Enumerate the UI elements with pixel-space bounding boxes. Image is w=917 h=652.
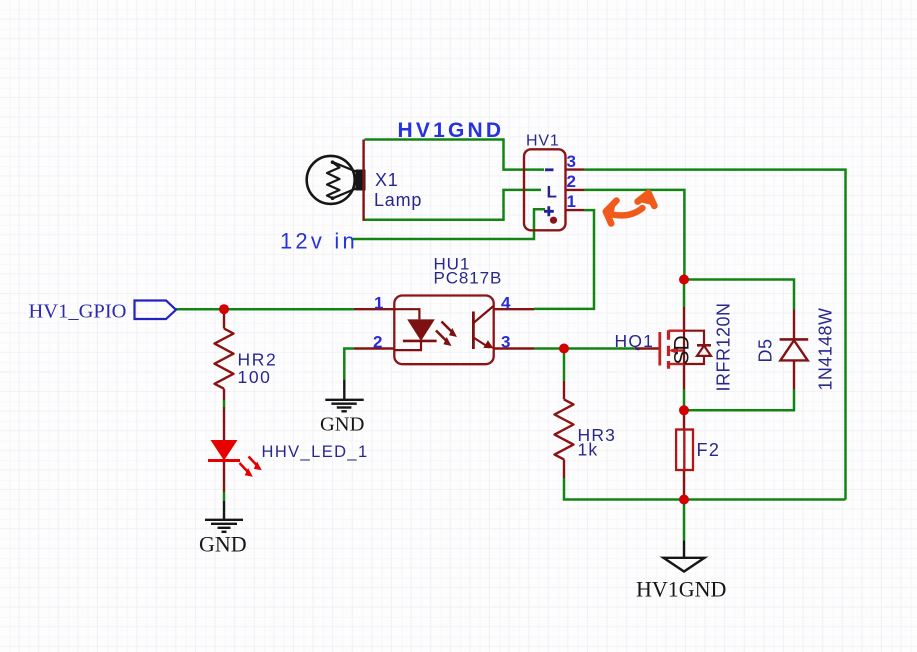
- svg-text:2: 2: [567, 172, 576, 191]
- pin HV1-1 stub: [566, 209, 585, 211]
- pin HR2 bottom: [223, 389, 225, 401]
- svg-text:3: 3: [567, 152, 576, 171]
- junction at source node: [679, 405, 689, 415]
- wire HV1 pin2 to drain node: [584, 190, 684, 280]
- svg-text:HV1GND: HV1GND: [636, 577, 726, 602]
- pin D5 anode: [793, 360, 795, 389]
- hierarchical label HV1_GPIO: [29, 301, 177, 323]
- junction at bottom rail: [679, 495, 689, 505]
- LED HHV_LED_1: [208, 440, 262, 477]
- ground GND left: [205, 501, 243, 532]
- svg-text:1N4148W: 1N4148W: [816, 308, 836, 391]
- resistor HR3: [555, 399, 574, 459]
- wire fuse bottom node to HV1GND: [683, 500, 686, 541]
- pin HV1-2 stub: [566, 189, 585, 191]
- ground GND mid: [325, 380, 363, 412]
- svg-text:GND: GND: [199, 532, 247, 557]
- svg-text:D5: D5: [756, 338, 776, 362]
- pin LED anode: [223, 407, 225, 440]
- wire lamp bottom to HV1 pin L: [365, 190, 542, 220]
- pin HU1-4 stub: [494, 308, 534, 310]
- wire HV1_GPIO to opto pin1: [176, 308, 354, 311]
- wire lamp top to HV1 pin -: [365, 140, 545, 170]
- pin D5 cathode: [793, 310, 795, 340]
- pin F2 top: [683, 410, 685, 429]
- svg-text:1: 1: [567, 192, 576, 211]
- svg-text:100: 100: [238, 367, 272, 387]
- wire 12v in to HV1 pin +: [353, 209, 545, 239]
- wire drain node to D5 top: [684, 280, 794, 310]
- svg-text:Lamp: Lamp: [374, 190, 422, 210]
- pin HR3 bottom: [563, 459, 565, 478]
- fuse F2: [676, 430, 693, 471]
- svg-text:1: 1: [374, 294, 383, 313]
- svg-text:HHV_LED_1: HHV_LED_1: [262, 443, 369, 461]
- svg-text:HV1_GPIO: HV1_GPIO: [29, 301, 127, 323]
- pin name -: [545, 168, 554, 171]
- wire source to node: [683, 389, 686, 410]
- svg-text:3: 3: [501, 333, 510, 352]
- transistor HQ1 internals: [660, 330, 711, 368]
- pin HV1-3 stub: [566, 168, 585, 170]
- svg-text:12v in: 12v in: [280, 229, 358, 254]
- resistor HR2: [215, 329, 234, 389]
- svg-text:GND: GND: [320, 414, 364, 436]
- pin HU1-1 stub: [354, 308, 395, 310]
- pin F2 bottom: [683, 470, 685, 500]
- connector HV1 plus dot: [550, 217, 557, 224]
- connector HV1 body: [524, 149, 566, 230]
- wire source node to D5 bottom: [684, 389, 794, 410]
- pin HU1-3 stub: [494, 347, 534, 349]
- PINS (dark red): [224, 170, 794, 500]
- svg-text:F2: F2: [697, 440, 721, 460]
- pin HR3 top: [563, 381, 565, 399]
- svg-text:HV1: HV1: [526, 133, 560, 150]
- wire HV1 pin1 to opto pin4: [534, 210, 594, 309]
- pin HQ1 drain: [683, 307, 685, 331]
- svg-text:D: D: [671, 335, 694, 350]
- optocoupler HU1 body: [394, 296, 493, 365]
- svg-text:2: 2: [373, 333, 382, 352]
- power symbol HV1GND: [664, 540, 705, 571]
- lamp X1 symbol: [307, 156, 366, 204]
- annotation orange arrow: [606, 193, 655, 224]
- pin HQ1 gate: [635, 347, 660, 349]
- junction at drain node: [679, 275, 689, 285]
- svg-text:IRFR120N: IRFR120N: [714, 302, 734, 391]
- wire drain node down: [683, 280, 686, 308]
- optocoupler HU1 internals: [394, 306, 493, 350]
- wire opto pin3 to gate: [534, 347, 635, 350]
- wire HR3 bottom to rail: [564, 478, 846, 500]
- diode D5: [780, 339, 809, 360]
- svg-text:X1: X1: [375, 170, 399, 190]
- wire HV1 pin3 to right rail: [584, 170, 846, 500]
- svg-text:HV1GND: HV1GND: [398, 119, 505, 142]
- svg-text:4: 4: [501, 294, 511, 313]
- pin HR2 top: [223, 309, 225, 328]
- wire HR3 top: [563, 349, 566, 382]
- pin HQ1 source: [683, 364, 685, 389]
- junction at gate/HR3: [559, 344, 569, 354]
- svg-text:HQ1: HQ1: [615, 331, 655, 351]
- junction at GPIO/HR2: [219, 304, 229, 314]
- svg-text:PC817B: PC817B: [434, 269, 503, 288]
- wire opto pin2 to GND: [344, 349, 354, 380]
- svg-text:1k: 1k: [578, 440, 599, 460]
- svg-text:L: L: [547, 183, 557, 202]
- pin HU1-2 stub: [354, 347, 395, 349]
- wire LED to GND: [223, 492, 226, 501]
- wire HR2 to LED: [223, 401, 226, 407]
- pin name +: [544, 206, 554, 216]
- svg-text:S: S: [671, 350, 694, 364]
- pin LED cathode: [223, 461, 225, 493]
- lamp X1 body edge: [362, 140, 364, 221]
